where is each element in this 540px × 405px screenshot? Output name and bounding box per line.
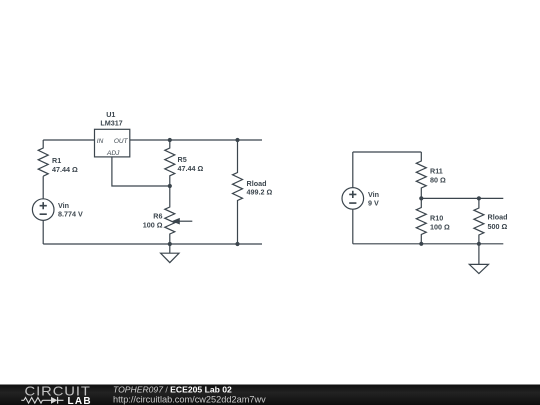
- svg-text:8.774 V: 8.774 V: [58, 210, 83, 219]
- resistor R5 47.44 ohm: [165, 140, 204, 186]
- voltage source Vin 9 V (right): [342, 188, 379, 210]
- junction: middle rail / Rload top (right): [477, 196, 481, 200]
- svg-text:TOPHER097 / ECE205 Lab 02: TOPHER097 / ECE205 Lab 02: [113, 385, 232, 395]
- svg-text:R6: R6: [153, 212, 162, 221]
- svg-text:LM317: LM317: [100, 119, 122, 128]
- junction: R6 bottom / bottom rail / ground: [168, 242, 172, 246]
- svg-text:Rload: Rload: [488, 213, 508, 222]
- svg-text:OUT: OUT: [114, 138, 129, 145]
- wire: middle rail (right circuit): [421, 197, 503, 199]
- svg-text:IN: IN: [97, 138, 104, 145]
- svg-text:http://circuitlab.com/cw252dd2: http://circuitlab.com/cw252dd2am7wv: [113, 395, 266, 405]
- junction: R11 bottom / middle rail: [419, 196, 423, 200]
- svg-text:47.44 Ω: 47.44 Ω: [52, 165, 78, 174]
- svg-text:100 Ω: 100 Ω: [430, 223, 450, 232]
- junction: output rail / Rload top (left): [235, 138, 239, 142]
- svg-text:Vin: Vin: [58, 201, 69, 210]
- svg-text:ADJ: ADJ: [106, 150, 120, 157]
- svg-text:R1: R1: [52, 156, 61, 165]
- svg-text:500 Ω: 500 Ω: [488, 222, 508, 231]
- wire: top rail (right circuit): [353, 151, 422, 153]
- svg-text:R5: R5: [178, 155, 187, 164]
- junction: Rload bottom / bottom rail (left): [235, 242, 239, 246]
- wire: Vin - terminal down to bottom rail: [42, 220, 44, 244]
- svg-text:9 V: 9 V: [368, 199, 379, 208]
- R6 wiper arrow: [179, 220, 192, 222]
- resistor R11 80 ohm: [416, 152, 446, 198]
- junction: U1 OUT / R5 top: [168, 138, 172, 142]
- ground (right circuit): [469, 244, 488, 274]
- potentiometer R6 100 ohm: [143, 186, 193, 244]
- regulator U1 LM317 body: [95, 110, 130, 157]
- wire: U1 ADJ down and right to R5/R6 node: [112, 157, 170, 186]
- wire: Vin + terminal up to top rail: [352, 152, 354, 188]
- svg-text:R11: R11: [430, 167, 443, 176]
- resistor R10 100 ohm: [416, 198, 450, 243]
- wire: R1 bottom to Vin + terminal: [42, 176, 44, 199]
- logo resistor zigzag: [24, 398, 43, 404]
- svg-text:LAB: LAB: [68, 396, 92, 405]
- junction: R10 bottom / bottom rail: [419, 242, 423, 246]
- svg-text:80 Ω: 80 Ω: [430, 176, 446, 185]
- voltage source Vin 8.774 V (left): [32, 199, 83, 221]
- ground (left circuit): [161, 244, 179, 263]
- junction: Rload bottom / bottom rail / ground (right): [477, 242, 481, 246]
- resistor R1 47.44 ohm: [38, 140, 78, 176]
- svg-text:47.44 Ω: 47.44 Ω: [178, 164, 204, 173]
- logo diode: [51, 397, 57, 404]
- svg-text:100 Ω: 100 Ω: [143, 221, 163, 230]
- wire: R1 top to U1 IN pin: [43, 139, 94, 141]
- wire: U1 OUT to output rail: [130, 139, 262, 141]
- wire: bottom rail (right circuit): [353, 243, 504, 245]
- svg-text:R10: R10: [430, 214, 443, 223]
- resistor Rload 500 ohm (right): [474, 198, 508, 243]
- svg-text:499.2 Ω: 499.2 Ω: [247, 188, 273, 197]
- junction: ADJ / R5 bottom / R6 top: [168, 184, 172, 188]
- logo wire to diode: [21, 399, 63, 401]
- wire: Vin - terminal down to bottom rail: [352, 209, 354, 244]
- wire: bottom rail (left circuit): [43, 243, 262, 245]
- resistor Rload 499.2 ohm (left): [233, 140, 273, 244]
- svg-text:Vin: Vin: [368, 190, 379, 199]
